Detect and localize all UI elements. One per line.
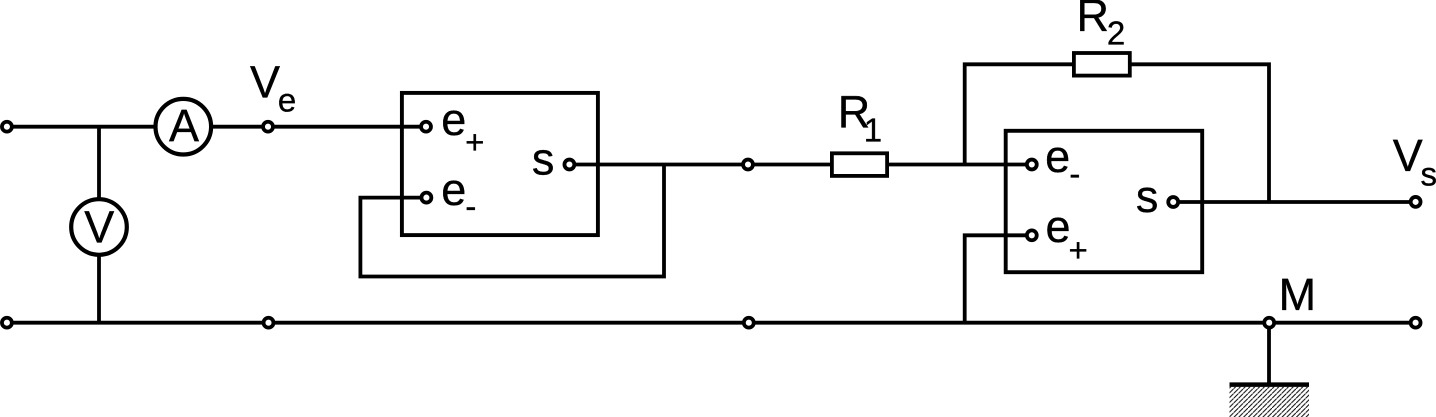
svg-text:e: e — [1046, 201, 1071, 252]
pin label U2 e+ — [1046, 201, 1088, 268]
pin U2 e- — [1027, 160, 1037, 170]
resistor R2 — [1074, 53, 1130, 76]
node Ve — [263, 122, 273, 132]
svg-text:s: s — [1421, 156, 1436, 193]
ground — [1230, 385, 1310, 417]
pin label U1 e- — [441, 164, 476, 225]
wire top rail input to U1 e+ — [7, 125, 426, 129]
node M — [1264, 318, 1274, 328]
svg-text:V: V — [1393, 130, 1423, 181]
svg-text:R: R — [1077, 0, 1110, 41]
svg-text:s: s — [1136, 171, 1159, 222]
svg-text:e: e — [441, 164, 466, 215]
svg-text:V: V — [250, 57, 280, 108]
svg-text:+: + — [1069, 231, 1088, 268]
wire U2 e+ to bottom rail — [965, 235, 1032, 322]
wire U1 feedback s to e- — [360, 165, 664, 277]
op-amp U2 — [1006, 131, 1202, 272]
op-amp U1 — [402, 93, 598, 235]
pin U1 s — [564, 160, 574, 170]
svg-text:-: - — [465, 188, 476, 225]
pin U2 e+ — [1027, 230, 1037, 240]
pin U1 e+ — [421, 122, 431, 132]
svg-text:2: 2 — [1107, 15, 1125, 52]
terminal bottom-right — [1411, 318, 1421, 328]
wire R2 branch — [965, 64, 1269, 202]
pin U2 s — [1168, 197, 1178, 207]
node bottom under Ve — [264, 318, 274, 328]
svg-text:e: e — [278, 81, 296, 118]
terminal bottom-left — [2, 318, 12, 328]
label Ve — [250, 57, 296, 119]
node bottom mid — [744, 318, 754, 328]
svg-text:M: M — [1279, 269, 1317, 320]
svg-text:e: e — [441, 94, 466, 145]
wire ground drop from M — [1267, 323, 1271, 385]
voltmeter V — [71, 199, 127, 255]
pin U1 e- — [421, 193, 431, 203]
terminal top-left — [2, 122, 12, 132]
label Vs — [1393, 130, 1436, 193]
label R1 — [838, 87, 882, 149]
wire voltmeter branch — [97, 127, 101, 323]
wire U2 output to Vs — [1173, 200, 1415, 204]
pin label U2 e- — [1045, 131, 1080, 192]
svg-text:+: + — [465, 123, 484, 160]
svg-text:-: - — [1069, 155, 1080, 192]
label R2 — [1077, 0, 1126, 52]
svg-text:1: 1 — [864, 111, 882, 148]
terminal Vs — [1411, 197, 1421, 207]
pin label U1 e+ — [441, 94, 484, 161]
svg-text:A: A — [169, 100, 199, 151]
wire bottom rail — [7, 321, 1416, 325]
node mid output U1 — [743, 160, 753, 170]
resistor R1 — [832, 153, 887, 176]
ammeter A — [156, 99, 212, 155]
svg-text:V: V — [84, 202, 114, 253]
wire U1 output to U2 e- through R1 — [569, 163, 1031, 167]
svg-text:e: e — [1045, 131, 1070, 182]
svg-text:s: s — [532, 134, 555, 185]
